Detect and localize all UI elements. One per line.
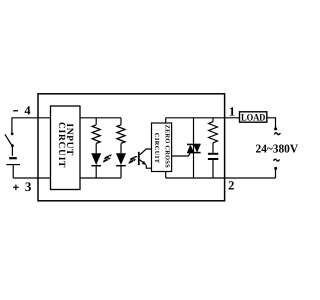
- svg-text:4: 4: [24, 104, 31, 118]
- top rail left: [80, 117, 121, 119]
- svg-text:ZERO CROSS: ZERO CROSS: [164, 125, 171, 168]
- svg-text:3: 3: [25, 179, 32, 194]
- U2 top stub: [165, 118, 167, 123]
- bottom rail right / terminal 2 wire: [166, 177, 276, 179]
- switch S1: [5, 118, 14, 156]
- wire LOAD to AC top: [267, 118, 276, 128]
- phototransistor Q1: [139, 149, 152, 168]
- node AC top: [274, 127, 277, 130]
- svg-text:CIRCUIT: CIRCUIT: [56, 122, 66, 168]
- zero cross circuit block U2: [152, 123, 172, 172]
- SSR outline box: [38, 94, 225, 201]
- AC tilde top: [274, 133, 280, 135]
- node AC bottom: [274, 167, 277, 170]
- resistor R3: [209, 118, 218, 153]
- LED D1: [91, 153, 101, 178]
- svg-text:2: 2: [228, 178, 234, 192]
- resistor R2: [117, 118, 125, 154]
- AC tilde bottom: [274, 159, 280, 161]
- bottom rail left: [80, 177, 121, 179]
- photon arrows into Q1: [129, 156, 138, 163]
- wire AC bottom to terminal 2: [275, 170, 277, 179]
- label -4: [13, 104, 31, 118]
- svg-text:24~380V: 24~380V: [256, 141, 299, 155]
- svg-text:LOAD: LOAD: [241, 113, 265, 124]
- terminal 3 wire: [13, 177, 50, 179]
- input circuit block U1: [51, 106, 81, 190]
- label +3: [13, 179, 32, 194]
- U2 bottom stub: [165, 172, 167, 179]
- LED D2: [116, 153, 126, 178]
- LOAD box: [240, 112, 267, 122]
- resistor R1: [92, 118, 100, 154]
- triac T1: [187, 118, 201, 178]
- gate wire U2 to T1: [172, 152, 191, 156]
- svg-text:1: 1: [229, 105, 235, 119]
- capacitor C1: [208, 154, 218, 178]
- battery B1: [6, 158, 20, 178]
- photon arrows from D1: [103, 155, 112, 163]
- terminal 4 wire: [12, 117, 51, 119]
- svg-text:CIRCUIT: CIRCUIT: [153, 133, 160, 164]
- top rail right / terminal 1 wire: [166, 117, 240, 119]
